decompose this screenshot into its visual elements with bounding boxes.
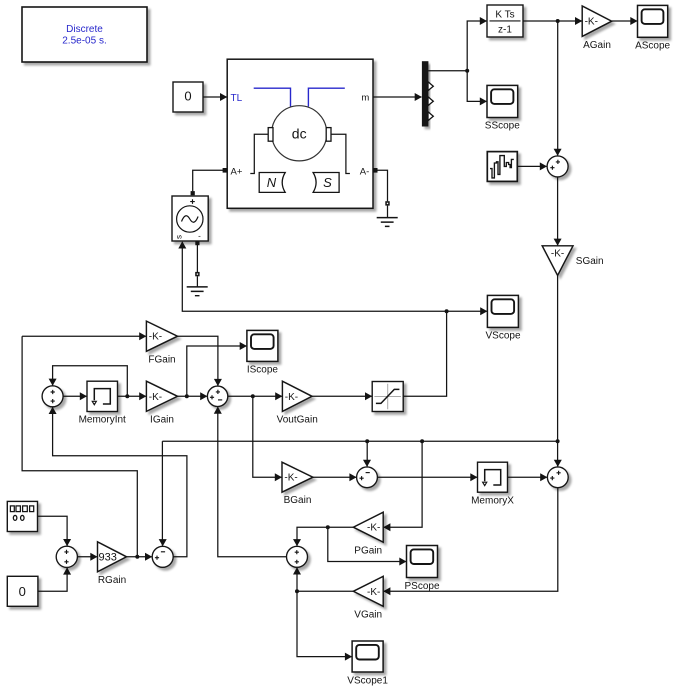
DC machine blue field wire right bbox=[308, 88, 344, 106]
wire node to discrete integrator bbox=[467, 21, 486, 71]
wire TL constant to DC machine bbox=[203, 96, 227, 98]
node VGain-out junction bbox=[295, 589, 299, 593]
svg-text:-K-: -K- bbox=[551, 249, 564, 260]
sum (torque: -+) bbox=[357, 467, 378, 488]
svg-text:-K-: -K- bbox=[367, 523, 380, 534]
svg-text:Discrete: Discrete bbox=[66, 24, 103, 35]
wire AGain to AScope bbox=[612, 20, 637, 22]
wire branch to IScope bbox=[187, 346, 247, 396]
svg-text:A-: A- bbox=[360, 166, 370, 177]
svg-text:AScope: AScope bbox=[635, 41, 670, 52]
scope IScope bbox=[247, 330, 278, 361]
wire VoutGain to saturation bbox=[312, 395, 372, 397]
svg-text:0: 0 bbox=[19, 584, 26, 599]
wire AC source plus to A+ bbox=[193, 170, 225, 191]
DC machine blue field wire left bbox=[254, 88, 291, 106]
wire branch to PScope bbox=[328, 527, 406, 561]
svg-text:-K-: -K- bbox=[585, 17, 598, 28]
node branch to PGain bbox=[420, 439, 424, 443]
wire right sum down to VGain bbox=[384, 488, 558, 592]
wire connector to ground bbox=[196, 276, 198, 287]
sum (reference: ++) bbox=[56, 546, 77, 567]
signal builder block bbox=[487, 152, 517, 182]
svg-text:BGain: BGain bbox=[284, 495, 312, 506]
node branch to torque sum bbox=[365, 439, 369, 443]
DC machine block body bbox=[227, 59, 373, 208]
svg-text:S: S bbox=[323, 175, 332, 190]
wire branch down to BGain bbox=[253, 396, 282, 477]
svg-text:0: 0 bbox=[184, 89, 191, 104]
wire MemoryInt feedback to sum1 top bbox=[53, 366, 128, 397]
node demux-out junction bbox=[465, 69, 469, 73]
svg-text:VScope1: VScope1 bbox=[347, 675, 388, 686]
magnet S bbox=[313, 173, 339, 193]
svg-text:MemoryInt: MemoryInt bbox=[79, 415, 126, 426]
wire SGain down to right sum bbox=[557, 275, 559, 466]
memory block MemoryInt bbox=[87, 381, 118, 411]
wire SGain line going left bbox=[162, 440, 557, 442]
svg-text:N: N bbox=[267, 175, 277, 190]
scope PScope bbox=[407, 546, 438, 578]
gain FGain bbox=[146, 321, 177, 351]
svg-text:-: - bbox=[198, 232, 201, 241]
gain VGain (left) bbox=[353, 576, 383, 606]
svg-text:PScope: PScope bbox=[404, 581, 439, 592]
wire left end down to sum2 bbox=[161, 441, 163, 546]
sum (voltage: ++-) bbox=[207, 386, 227, 406]
node IGain-out junction bbox=[185, 394, 189, 398]
svg-text:IScope: IScope bbox=[247, 365, 279, 376]
AC voltage source block bbox=[172, 196, 208, 241]
wire A- to ground bbox=[378, 170, 388, 201]
wire MemoryX to right sum bbox=[508, 476, 547, 478]
svg-text:FGain: FGain bbox=[148, 354, 175, 365]
DC machine armature wire right bbox=[331, 134, 350, 173]
svg-text:-K-: -K- bbox=[367, 587, 380, 598]
AC source - port square bbox=[195, 241, 199, 245]
wire sum1 to MemoryInt bbox=[63, 395, 86, 397]
svg-text:z-1: z-1 bbox=[498, 25, 512, 36]
svg-text:2.5e-05 s.: 2.5e-05 s. bbox=[62, 36, 106, 47]
wire connector to ground A- bbox=[387, 206, 389, 218]
wire branch down to VScope1 bbox=[297, 591, 352, 656]
wire speed sum to SGain bbox=[557, 177, 559, 245]
scope VScope bbox=[487, 295, 518, 327]
svg-text:VScope: VScope bbox=[485, 330, 520, 341]
svg-text:dc: dc bbox=[292, 125, 307, 141]
gain VoutGain bbox=[282, 381, 312, 411]
wire RGain out bbox=[127, 556, 152, 558]
scope SScope bbox=[487, 85, 518, 117]
wire MemoryInt out bbox=[118, 395, 146, 397]
ground symbol below AC source bbox=[187, 287, 208, 296]
svg-text:SScope: SScope bbox=[485, 121, 520, 132]
counter/binary block bbox=[7, 501, 37, 531]
A- port square bbox=[373, 168, 378, 173]
wire FGain out to IG sum top bbox=[178, 336, 218, 385]
svg-text:PGain: PGain bbox=[354, 545, 382, 556]
wire FGain input bbox=[22, 335, 146, 337]
wire sum1b to RGain bbox=[77, 556, 97, 558]
node VoutGain-in junction bbox=[251, 394, 255, 398]
DC machine left brush bbox=[268, 128, 273, 142]
wire constant to sum1b bbox=[38, 568, 67, 591]
saturation block bbox=[372, 382, 403, 412]
svg-text:-K-: -K- bbox=[149, 332, 162, 343]
wire PV sum out to voltage sum bottom bbox=[218, 407, 287, 557]
svg-text:TL: TL bbox=[231, 93, 243, 104]
DC machine right brush bbox=[326, 128, 331, 142]
powergui block 'Discrete 2.5e-05 s.' bbox=[22, 7, 147, 62]
wire torque sum to MemoryX bbox=[377, 476, 477, 478]
wire branch down to PGain bbox=[384, 441, 422, 527]
DC machine armature wire left bbox=[250, 134, 268, 173]
wire counter to sum1b bbox=[38, 516, 68, 545]
svg-text:933: 933 bbox=[99, 552, 117, 564]
wire PGain out bbox=[297, 527, 353, 546]
svg-text:IGain: IGain bbox=[150, 415, 174, 426]
constant block '0' (TL input) bbox=[173, 82, 203, 112]
gain IGain bbox=[146, 381, 177, 411]
svg-text:-K-: -K- bbox=[149, 392, 162, 403]
wire integrator to AGain bbox=[523, 20, 582, 22]
svg-text:MemoryX: MemoryX bbox=[471, 495, 514, 506]
wire signal builder to speed sum bbox=[517, 165, 546, 167]
discrete-time integrator block 'K Ts/z-1' bbox=[487, 5, 523, 37]
sum (current loop) bbox=[42, 386, 63, 407]
svg-text:RGain: RGain bbox=[98, 575, 126, 586]
wire BGain to torque sum bbox=[313, 476, 356, 478]
gain PGain (left) bbox=[353, 512, 383, 542]
wire sum2 out up-left to sum1 bottom bbox=[53, 407, 187, 556]
wire m to demux bbox=[373, 96, 421, 98]
gain RGain '933' bbox=[98, 542, 127, 572]
svg-text:K Ts: K Ts bbox=[495, 10, 514, 21]
wire node to SScope bbox=[467, 71, 486, 102]
sum (speed error) bbox=[547, 156, 568, 177]
sum (P+V: ++) bbox=[287, 546, 308, 567]
wire demux to node bbox=[428, 70, 467, 72]
ground symbol at A- bbox=[377, 218, 398, 227]
scope AScope bbox=[638, 5, 668, 37]
constant block '0' (bottom) bbox=[7, 576, 38, 606]
node MemoryInt-out junction bbox=[125, 394, 129, 398]
svg-text:-K-: -K- bbox=[284, 473, 297, 484]
magnet N bbox=[259, 173, 285, 193]
node PGain-out junction bbox=[326, 525, 330, 529]
sum (speed integrate: ++) bbox=[547, 467, 568, 488]
wire node down to speed sum bbox=[557, 21, 559, 155]
wire branch up to PV sum bbox=[296, 568, 298, 591]
wire IGain out bbox=[178, 395, 207, 397]
gain AGain bbox=[582, 6, 612, 36]
svg-text:s: s bbox=[175, 235, 184, 239]
DC machine rotor circle bbox=[272, 106, 327, 161]
memory block MemoryX bbox=[478, 462, 508, 492]
AC source + port square bbox=[191, 191, 195, 195]
node SGain line junction bbox=[556, 439, 560, 443]
wire node to VScope bbox=[447, 310, 487, 312]
svg-text:VGain: VGain bbox=[354, 609, 382, 620]
sum (current compare: -+) bbox=[152, 546, 173, 567]
scope VScope1 bbox=[352, 641, 383, 672]
svg-text:SGain: SGain bbox=[576, 256, 604, 267]
svg-text:A+: A+ bbox=[231, 166, 243, 177]
wire saturation out up to VScope line bbox=[403, 311, 446, 396]
svg-text:-K-: -K- bbox=[285, 392, 298, 403]
wire AC source minus down bbox=[196, 245, 198, 272]
node integrator-out junction bbox=[556, 19, 560, 23]
gain BGain bbox=[282, 462, 313, 492]
wire VGain out bbox=[297, 590, 353, 592]
demux bus bar bbox=[422, 61, 429, 126]
wire branch down to torque sum bbox=[366, 441, 368, 466]
gain SGain (down) bbox=[542, 246, 573, 276]
svg-text:VoutGain: VoutGain bbox=[277, 415, 318, 426]
node VScope line junction bbox=[445, 309, 449, 313]
wire RGain feedback up to FGain input bbox=[22, 336, 137, 557]
A+ port square bbox=[223, 168, 228, 173]
node RGain-out junction bbox=[135, 555, 139, 559]
wire control back to AC source bbox=[182, 242, 446, 311]
wire voltage sum to VoutGain bbox=[228, 395, 282, 397]
connector square below A- bbox=[385, 201, 389, 205]
connector square below source bbox=[195, 272, 199, 276]
svg-text:m: m bbox=[361, 92, 369, 103]
svg-text:AGain: AGain bbox=[583, 40, 611, 51]
